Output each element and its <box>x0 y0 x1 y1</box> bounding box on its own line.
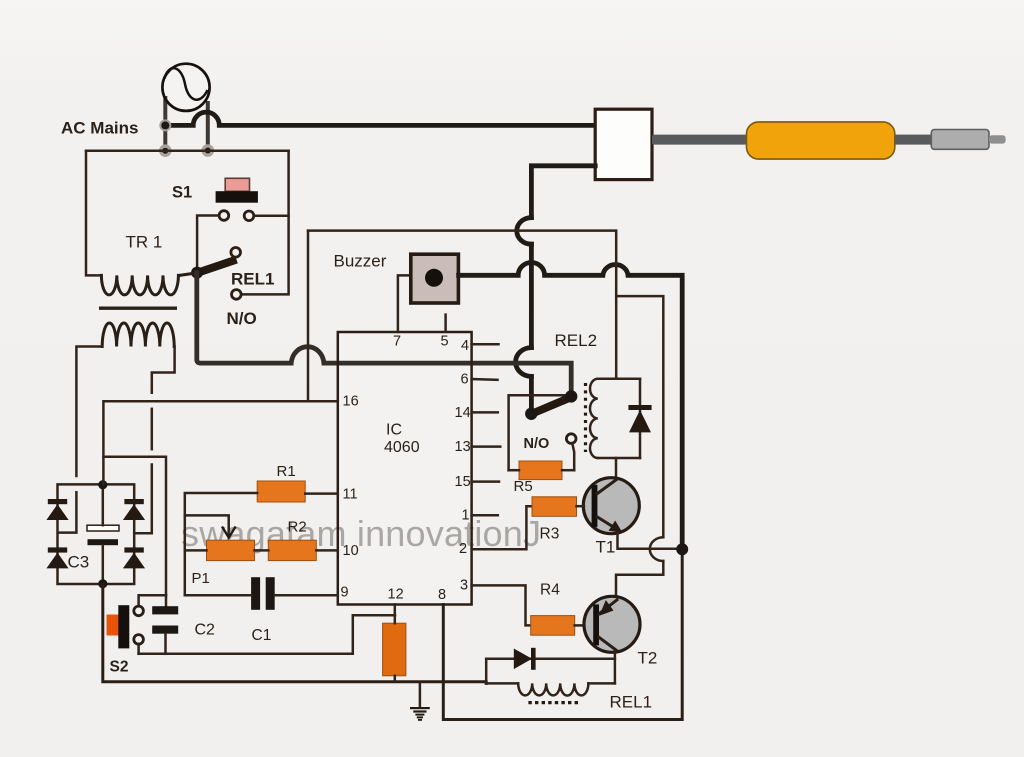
wire: loop right edge <box>241 151 289 295</box>
pin 13 stub <box>472 445 501 448</box>
svg-text:T2: T2 <box>638 649 658 668</box>
pin 7 wire from buzzer <box>398 275 413 332</box>
svg-text:R3: R3 <box>540 526 560 543</box>
wire: S1 right contact to loop <box>253 215 288 218</box>
svg-text:4: 4 <box>461 338 469 354</box>
wire: top thin line of inner box <box>308 231 616 379</box>
node: junction mains/left lead <box>159 119 171 131</box>
wire: C1 left lead <box>185 594 251 597</box>
wire: C3 center top <box>102 485 105 525</box>
node: REL1 pivot <box>191 267 203 279</box>
soldering iron body box <box>595 109 652 179</box>
mech link dotted REL2 <box>584 383 587 452</box>
node: REL2 top contact <box>565 390 577 402</box>
node: bridge + <box>98 480 107 489</box>
svg-text:C3: C3 <box>68 553 90 572</box>
wire: C3 center bottom <box>102 545 105 584</box>
svg-text:REL1: REL1 <box>231 270 274 289</box>
pin 6 stub <box>472 378 498 381</box>
svg-text:P1: P1 <box>192 570 210 587</box>
node: REL2 pivot <box>525 408 537 420</box>
wire: R6 bottom lead <box>394 676 397 682</box>
wire: R4 right lead to T2 base <box>575 624 585 627</box>
svg-text:R1: R1 <box>277 463 296 480</box>
svg-text:REL1: REL1 <box>610 693 653 712</box>
capacitor C3 plate + <box>87 525 119 531</box>
svg-text:4060: 4060 <box>384 439 420 456</box>
soldering iron tip <box>989 135 1006 143</box>
wire: C2 bottom lead <box>164 634 167 654</box>
relay REL1 lever <box>196 260 237 274</box>
transformer TR1 secondary coil <box>102 323 174 347</box>
wire: feed down to C2 <box>165 595 168 606</box>
svg-text:Buzzer: Buzzer <box>334 252 387 271</box>
TR1 primary loop: top edge <box>86 150 289 153</box>
buzzer BZ1 body <box>411 254 459 303</box>
soldering iron handle <box>747 122 895 159</box>
relay REL2 coil box <box>598 379 640 458</box>
wire: S2 bottom contact down <box>137 644 140 654</box>
svg-text:R4: R4 <box>540 582 560 599</box>
buzzer dot <box>425 269 443 287</box>
diode D5 across REL2 coil <box>639 379 642 458</box>
wire: R1 right lead to pin11 <box>305 492 338 495</box>
relay REL2 lever <box>530 397 572 415</box>
resistor R5 <box>519 461 562 480</box>
wire: mains to iron, hop over right lead <box>164 112 595 125</box>
svg-text:6: 6 <box>461 372 469 388</box>
contact S1 left <box>219 211 229 221</box>
svg-text:2: 2 <box>459 541 467 557</box>
wire: S1 left contact to REL1 pivot <box>197 216 220 269</box>
relay REL1 coil <box>486 682 615 685</box>
wire: main vertical hop over top thin line <box>517 218 532 245</box>
capacitor C2 top plate <box>152 606 178 614</box>
pin 14 stub <box>472 411 498 414</box>
contact REL2 N/O <box>566 434 576 444</box>
diode D3 (bridge right top) <box>124 499 143 504</box>
svg-text:10: 10 <box>343 543 359 559</box>
pin 5 stub <box>444 315 447 332</box>
diode D1 (bridge left top) <box>48 499 67 504</box>
resistor R4 <box>531 616 575 636</box>
pin 4 stub <box>472 343 499 346</box>
wire: R3 right lead to T1 base <box>577 505 585 508</box>
svg-text:8: 8 <box>438 587 446 603</box>
wire: right vertical hop over emitter wire <box>650 537 664 561</box>
node: bridge - <box>98 579 107 588</box>
svg-text:S2: S2 <box>110 659 129 676</box>
AC source left lead <box>163 96 167 147</box>
wire: primary right to pivot <box>179 273 197 276</box>
transformer TR1 primary coil <box>101 275 178 295</box>
wire: T2 emitter down <box>614 651 617 684</box>
terminal left <box>159 144 172 157</box>
wire: coil bottom to T1 collector <box>615 458 618 478</box>
switch S1 base <box>216 191 258 203</box>
svg-text:N/O: N/O <box>524 436 550 452</box>
wire: secondary left down to bridge (break at bridge edge) <box>76 347 102 477</box>
svg-text:9: 9 <box>341 585 349 601</box>
contact REL1 N/O <box>232 290 242 300</box>
contact S1 right <box>244 211 254 221</box>
transistor T2 body <box>584 596 640 652</box>
wire: N/O contact to R5 <box>572 443 574 470</box>
svg-text:IC: IC <box>386 422 402 439</box>
svg-text:C1: C1 <box>252 627 272 644</box>
wire: T1 emitter to node <box>618 533 681 549</box>
contact S2 top <box>134 606 144 616</box>
wire: branch to T-net right vertical <box>616 296 663 537</box>
wire: main vertical down to second hop <box>529 244 534 347</box>
capacitor C3 plate - <box>88 539 119 545</box>
switch S2 bar <box>118 605 129 648</box>
svg-text:T1: T1 <box>596 538 616 557</box>
pin 1 stub <box>472 514 498 517</box>
capacitor C2 bottom plate <box>152 626 178 634</box>
svg-text:AC Mains: AC Mains <box>61 119 138 138</box>
op-amp U1 body background (IC 4060 box fill) <box>338 332 472 605</box>
wire: feed to S2 top contact <box>139 595 166 606</box>
wire: inner box left edge to V+ <box>307 231 310 401</box>
svg-text:7: 7 <box>393 334 401 350</box>
pin 15 stub <box>472 480 499 483</box>
svg-text:3: 3 <box>460 578 468 594</box>
wire: main vertical to REL2 pivot <box>529 376 534 410</box>
wire: P1 to R2 <box>255 549 269 552</box>
wire: REL1 pivot down and across to REL2 (hop over box edge) <box>197 273 571 392</box>
svg-text:13: 13 <box>455 439 471 455</box>
svg-text:TR 1: TR 1 <box>126 233 163 252</box>
contact S2 bottom <box>134 635 144 645</box>
resistor R6 vertical at pin12 <box>383 623 406 676</box>
svg-text:15: 15 <box>455 474 471 490</box>
pin 3 wire to R4 <box>472 585 531 625</box>
wire: pin8 down, bottom loop to right node <box>443 552 682 720</box>
resistor R2 <box>268 540 316 560</box>
svg-text:REL2: REL2 <box>555 331 598 350</box>
transistor T1 body <box>583 478 639 534</box>
wire: pin12 lead <box>394 605 397 624</box>
svg-text:S1: S1 <box>172 184 192 202</box>
IC U1 4060 box <box>338 332 472 605</box>
wire: diode loop left <box>485 659 488 684</box>
wire: V+ rail up from bridge and to pin16 <box>103 401 337 484</box>
soldering iron shaft 2 <box>895 135 933 145</box>
wire: buzzer to right corner (hops over two verticals) <box>459 263 683 548</box>
wire: P1 left lead <box>185 549 207 552</box>
wire: S2/C2 to pin12 lead <box>139 615 395 654</box>
wire: R1 left lead + rail <box>185 493 257 595</box>
pin 2 wire to R3 <box>472 506 532 549</box>
contact REL1 upper <box>231 248 241 258</box>
AC source G1 circle with sine <box>162 64 209 111</box>
svg-text:C2: C2 <box>195 622 216 639</box>
svg-text:16: 16 <box>343 394 359 410</box>
svg-text:R5: R5 <box>514 478 533 495</box>
svg-text:N/O: N/O <box>227 309 257 328</box>
potentiometer P1 <box>207 540 255 560</box>
wire: R5 right lead <box>562 469 574 472</box>
svg-text:11: 11 <box>343 487 358 503</box>
resistor R3 <box>532 497 577 517</box>
capacitor C1 plates <box>251 577 260 610</box>
terminal right <box>202 144 215 157</box>
svg-text:5: 5 <box>441 334 449 350</box>
wire: ground rail <box>103 584 486 684</box>
resistor R1 <box>257 481 305 502</box>
diode D6 freewheel REL1 <box>486 658 615 661</box>
bridge rectifier outline <box>58 484 135 584</box>
svg-text:14: 14 <box>455 405 471 421</box>
wire: branch to S2/C2 feed <box>103 457 166 596</box>
wire: main vertical hop over REL wire <box>516 348 532 377</box>
wire: loop left edge <box>86 151 101 276</box>
transformer TR1 core <box>99 307 177 310</box>
soldering iron shaft <box>652 135 750 145</box>
soldering iron plug <box>931 130 989 150</box>
mech link dotted REL1 <box>528 701 580 704</box>
ground symbol <box>419 683 422 707</box>
svg-text:1: 1 <box>462 508 470 524</box>
svg-text:12: 12 <box>388 587 404 603</box>
wire: secondary right down to bridge (breaks at crossings) <box>152 347 175 393</box>
relay REL2 switch frame <box>509 395 569 470</box>
wire: C1 right lead to pin9 <box>275 594 338 597</box>
node: emitter/supply junction <box>676 543 688 555</box>
wire: R2 right lead to pin10 <box>316 549 338 552</box>
wire: R5 left lead <box>509 469 519 472</box>
AC source right lead <box>206 101 210 147</box>
switch S2 button <box>107 615 120 636</box>
diode D2 (bridge left bottom) <box>48 547 67 552</box>
diode D4 (bridge right bottom) <box>124 547 143 552</box>
wire: iron box to main vertical <box>531 166 595 218</box>
P1 wiper <box>185 515 229 534</box>
svg-text:R2: R2 <box>288 519 307 536</box>
wire: right vertical to T2 collector <box>616 561 663 598</box>
switch S1 button cap <box>225 178 249 191</box>
